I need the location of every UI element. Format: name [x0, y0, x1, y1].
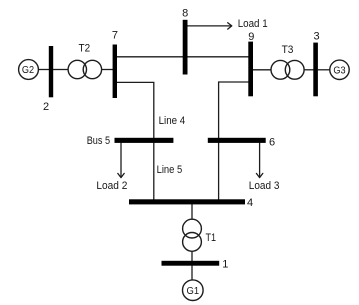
- svg-text:2: 2: [43, 101, 49, 113]
- svg-text:7: 7: [112, 30, 118, 42]
- svg-text:Line 4: Line 4: [159, 115, 186, 127]
- svg-text:G2: G2: [22, 64, 34, 76]
- svg-text:Load 2: Load 2: [96, 180, 127, 192]
- svg-text:Load 1: Load 1: [238, 18, 268, 30]
- svg-text:8: 8: [182, 8, 188, 20]
- svg-text:6: 6: [269, 137, 275, 149]
- svg-text:G3: G3: [333, 64, 345, 76]
- svg-text:Line 5: Line 5: [157, 164, 183, 176]
- svg-text:3: 3: [314, 30, 320, 42]
- svg-text:G1: G1: [187, 285, 200, 297]
- svg-text:1: 1: [222, 259, 228, 271]
- svg-text:9: 9: [248, 31, 254, 43]
- svg-text:4: 4: [247, 197, 253, 209]
- svg-text:T2: T2: [79, 43, 91, 55]
- svg-text:T1: T1: [206, 232, 217, 244]
- svg-text:T3: T3: [282, 44, 294, 56]
- svg-text:Load 3: Load 3: [249, 180, 280, 192]
- svg-text:Bus 5: Bus 5: [87, 135, 110, 147]
